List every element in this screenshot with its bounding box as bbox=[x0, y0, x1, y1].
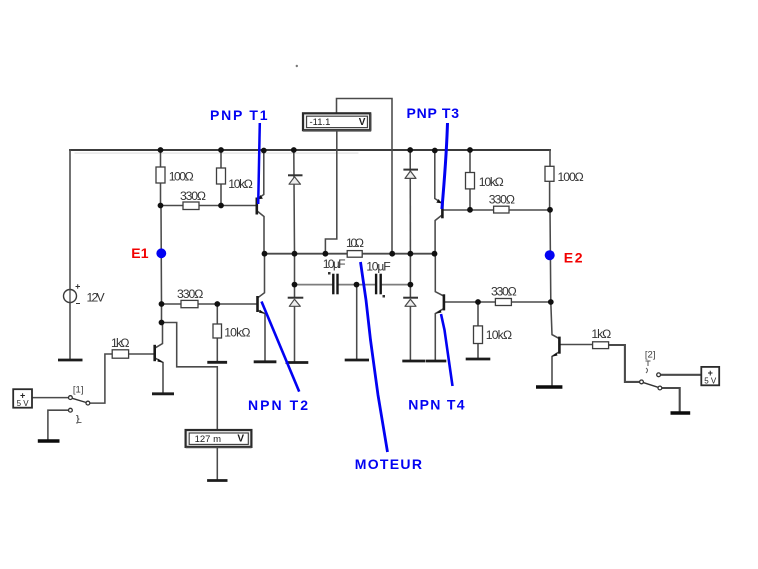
svg-text:1kΩ: 1kΩ bbox=[591, 327, 611, 341]
svg-text:PNP T1: PNP T1 bbox=[210, 107, 268, 123]
svg-text:5 V: 5 V bbox=[17, 399, 30, 408]
svg-text:12V: 12V bbox=[87, 290, 106, 304]
svg-text:100Ω: 100Ω bbox=[169, 169, 194, 183]
svg-text:330Ω: 330Ω bbox=[180, 189, 206, 203]
svg-text:[2]: [2] bbox=[645, 350, 656, 361]
svg-text:127 m: 127 m bbox=[195, 434, 221, 445]
svg-text:[1]: [1] bbox=[73, 384, 84, 395]
svg-text:5 V: 5 V bbox=[704, 377, 717, 386]
svg-text:10kΩ: 10kΩ bbox=[479, 175, 504, 189]
svg-text:10kΩ: 10kΩ bbox=[224, 326, 250, 340]
svg-text:10µF: 10µF bbox=[366, 259, 391, 273]
svg-text:PNP T3: PNP T3 bbox=[407, 105, 460, 121]
svg-text:10Ω: 10Ω bbox=[346, 236, 364, 250]
svg-text:E1: E1 bbox=[131, 245, 149, 261]
svg-text:330Ω: 330Ω bbox=[491, 285, 517, 299]
svg-text:MOTEUR: MOTEUR bbox=[355, 456, 422, 472]
svg-text:330Ω: 330Ω bbox=[177, 287, 203, 301]
svg-text:1kΩ: 1kΩ bbox=[111, 336, 130, 350]
svg-text:V: V bbox=[359, 117, 366, 128]
svg-text:330Ω: 330Ω bbox=[489, 193, 515, 207]
svg-text:10kΩ: 10kΩ bbox=[228, 177, 253, 191]
svg-text:10µF: 10µF bbox=[323, 257, 346, 271]
svg-text:V: V bbox=[237, 433, 244, 444]
svg-text:10kΩ: 10kΩ bbox=[486, 328, 512, 342]
svg-text:NPN T4: NPN T4 bbox=[408, 397, 465, 413]
svg-text:100Ω: 100Ω bbox=[558, 170, 584, 184]
svg-text:-11.1: -11.1 bbox=[310, 117, 331, 128]
